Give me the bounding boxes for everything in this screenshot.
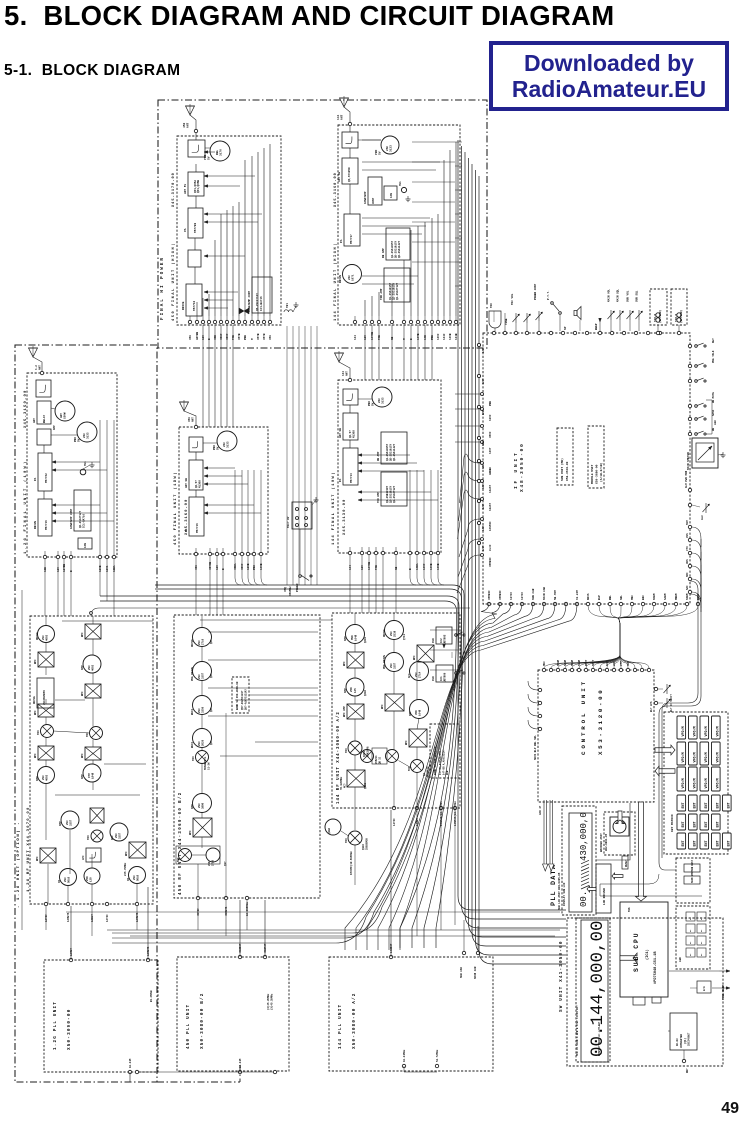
svg-text:CAR 4?: CAR 4? bbox=[539, 805, 542, 815]
svg-text:M: M bbox=[251, 338, 254, 340]
svg-text:M57737: M57737 bbox=[350, 234, 353, 244]
svg-text:X45-3150-00: X45-3150-00 bbox=[24, 390, 28, 428]
svg-text:BPF: BPF bbox=[343, 661, 346, 666]
svg-text:SSM: SSM bbox=[686, 520, 689, 525]
svg-text:14A6T: 14A6T bbox=[489, 485, 492, 493]
svg-text:MIX: MIX bbox=[37, 730, 40, 735]
svg-text:ENT: ENT bbox=[682, 840, 686, 846]
svg-text:VFO/M: VFO/M bbox=[704, 726, 709, 736]
svg-text:ENT: ENT bbox=[705, 821, 709, 827]
svg-text:12VB: 12VB bbox=[99, 565, 102, 572]
svg-text:AL: AL bbox=[689, 917, 692, 920]
svg-text:SSHM: SSHM bbox=[686, 593, 689, 600]
svg-text:VFO/M: VFO/M bbox=[716, 778, 721, 788]
svg-text:SUB VOL: SUB VOL bbox=[627, 290, 630, 302]
svg-text:ENT: ENT bbox=[728, 840, 732, 846]
svg-text:12V: 12V bbox=[216, 565, 219, 570]
svg-text:SUB CAR: SUB CAR bbox=[532, 588, 535, 600]
svg-text:DB AMP: DB AMP bbox=[382, 248, 385, 258]
svg-text:3133: 3133 bbox=[227, 441, 230, 448]
svg-text:(IC1): (IC1) bbox=[645, 949, 650, 960]
svg-text:C1-3W: C1-3W bbox=[208, 762, 211, 770]
svg-text:12TIF: 12TIF bbox=[521, 592, 524, 600]
svg-text:MAIN CAR: MAIN CAR bbox=[474, 966, 477, 979]
svg-text:DB AMP: DB AMP bbox=[377, 451, 380, 461]
svg-text:ENT: ENT bbox=[717, 802, 721, 808]
svg-text:X58-3610-00: X58-3610-00 bbox=[566, 461, 569, 481]
svg-text:TOR AMP: TOR AMP bbox=[377, 492, 380, 503]
svg-text:BPF: BPF bbox=[81, 753, 84, 758]
svg-text:MIC VOL: MIC VOL bbox=[511, 293, 514, 305]
svg-text:DISPLAY SUB LCD: DISPLAY SUB LCD bbox=[563, 882, 566, 906]
svg-text:AMP: AMP bbox=[36, 776, 39, 781]
svg-text:RBL: RBL bbox=[609, 595, 612, 600]
svg-text:SB: SB bbox=[395, 566, 398, 570]
svg-text:SP: SP bbox=[564, 326, 567, 330]
svg-text:POWER CONT: POWER CONT bbox=[534, 283, 537, 300]
svg-text:144 FINAL UNIT (10W): 144 FINAL UNIT (10W) bbox=[331, 471, 336, 545]
svg-text:M57788: M57788 bbox=[194, 223, 197, 233]
svg-text:12VF: 12VF bbox=[482, 525, 485, 531]
svg-text:AMP: AMP bbox=[344, 688, 347, 693]
svg-text:QX1,QX5B: QX1,QX5B bbox=[197, 180, 200, 193]
svg-text:3357: 3357 bbox=[119, 832, 122, 839]
svg-text:MIC: MIC bbox=[490, 303, 493, 308]
svg-text:POWER: POWER bbox=[296, 583, 299, 592]
svg-text:45RA: 45RA bbox=[234, 563, 237, 570]
svg-text:ALC: ALC bbox=[701, 515, 704, 520]
svg-text:14TIF: 14TIF bbox=[393, 818, 396, 826]
svg-text:X45-3170-00: X45-3170-00 bbox=[172, 172, 176, 207]
svg-text:Q202: Q202 bbox=[364, 690, 367, 696]
svg-text:Q6-2SA1142Y: Q6-2SA1142Y bbox=[398, 240, 401, 258]
svg-text:ANT SW: ANT SW bbox=[339, 428, 342, 438]
svg-text:B: B bbox=[222, 568, 225, 570]
svg-text:45TB: 45TB bbox=[257, 333, 260, 340]
svg-text:B: B bbox=[410, 338, 413, 340]
svg-text:TONE: TONE bbox=[505, 318, 508, 325]
svg-text:Q6-2SC2712Y: Q6-2SC2712Y bbox=[256, 293, 259, 311]
svg-text:12VF: 12VF bbox=[482, 409, 485, 415]
svg-text:DRIVE: DRIVE bbox=[33, 696, 36, 704]
svg-text:SAF: SAF bbox=[686, 585, 689, 590]
svg-text:PA: PA bbox=[340, 239, 343, 243]
svg-text:430,000,0: 430,000,0 bbox=[578, 812, 589, 861]
svg-text:ANT: ANT bbox=[187, 122, 190, 128]
svg-text:QX,SY1958: QX,SY1958 bbox=[348, 167, 351, 182]
svg-text:12V1: 12V1 bbox=[106, 565, 109, 572]
svg-text:4093: 4093 bbox=[46, 634, 49, 641]
svg-text:X50-3080-00 B/2: X50-3080-00 B/2 bbox=[200, 992, 205, 1049]
svg-text:14VB: 14VB bbox=[430, 563, 433, 570]
svg-text:14TXB: 14TXB bbox=[371, 332, 374, 340]
svg-text:VFO/M: VFO/M bbox=[681, 752, 686, 762]
svg-text:Q5?-A16?C121A?: Q5?-A16?C121A? bbox=[245, 689, 248, 710]
svg-text:XX: XX bbox=[127, 877, 130, 881]
svg-text:MAIN SMETER: MAIN SMETER bbox=[687, 452, 690, 470]
svg-text:5H.TDM: 5H.TDM bbox=[554, 590, 557, 600]
svg-text:125: 125 bbox=[354, 688, 357, 693]
svg-text:3357: 3357 bbox=[394, 662, 397, 669]
svg-text:45R: 45R bbox=[214, 335, 217, 340]
svg-text:MAIN SMST: MAIN SMST bbox=[691, 870, 694, 883]
svg-text:12VF: 12VF bbox=[482, 483, 485, 489]
svg-text:BPF: BPF bbox=[189, 830, 192, 835]
svg-text:3170: 3170 bbox=[220, 149, 223, 156]
svg-text:450 FINAL UNIT (1DW): 450 FINAL UNIT (1DW) bbox=[173, 471, 178, 545]
svg-text:QB 32: QB 32 bbox=[379, 756, 382, 764]
svg-text:14VT: 14VT bbox=[489, 447, 492, 454]
svg-text:MODULE UNIT: MODULE UNIT bbox=[591, 464, 594, 484]
svg-text:BPF: BPF bbox=[125, 851, 128, 856]
svg-text:TXB: TXB bbox=[232, 335, 235, 340]
svg-text:ANT: ANT bbox=[39, 365, 42, 370]
svg-text:X53-3120-00: X53-3120-00 bbox=[597, 688, 604, 755]
svg-text:SB: SB bbox=[391, 336, 394, 340]
svg-text:12VF: 12VF bbox=[482, 378, 485, 384]
svg-text:3133: 3133 bbox=[390, 145, 393, 152]
svg-text:Q6-2SA1142Y: Q6-2SA1142Y bbox=[393, 443, 396, 461]
svg-text:XX: XX bbox=[58, 879, 61, 883]
svg-text:CSS: CSS bbox=[686, 533, 689, 538]
svg-text:BPF: BPF bbox=[34, 659, 37, 664]
svg-text:BUFF: BUFF bbox=[191, 708, 194, 715]
svg-text:AVR: AVR bbox=[432, 638, 435, 643]
svg-text:10.24M: 10.24M bbox=[576, 590, 579, 600]
svg-text:M57716: M57716 bbox=[196, 523, 199, 533]
svg-text:45TB: 45TB bbox=[238, 333, 241, 340]
svg-text:00.: 00. bbox=[578, 891, 589, 907]
svg-text:45VF: 45VF bbox=[489, 431, 492, 438]
svg-text:3357: 3357 bbox=[202, 672, 205, 679]
svg-text:DRIVE: DRIVE bbox=[191, 639, 194, 647]
svg-text:Q2?: Q2? bbox=[210, 707, 213, 712]
svg-text:5010: 5010 bbox=[68, 876, 71, 883]
svg-text:3356: 3356 bbox=[202, 706, 205, 713]
svg-text:(A/1B-R/1B): (A/1B-R/1B) bbox=[599, 462, 603, 482]
svg-text:DC-DC: DC-DC bbox=[676, 1038, 679, 1046]
svg-text:450MHz: 450MHz bbox=[289, 586, 292, 596]
svg-text:DRIVE: DRIVE bbox=[182, 301, 185, 310]
svg-text:Q2?: Q2? bbox=[210, 639, 213, 644]
svg-text:245.70MHz: 245.70MHz bbox=[124, 862, 127, 876]
svg-text:RB: RB bbox=[712, 427, 715, 431]
svg-text:PRB: PRB bbox=[431, 335, 434, 340]
svg-text:BPF: BPF bbox=[34, 753, 37, 758]
svg-text:MRC: MRC bbox=[543, 661, 546, 666]
svg-text:VFO/M: VFO/M bbox=[693, 726, 698, 736]
svg-text:AL: AL bbox=[689, 941, 692, 944]
svg-text:12METS: 12METS bbox=[147, 946, 150, 956]
svg-text:SAHM: SAHM bbox=[664, 593, 667, 600]
svg-text:TONE BEEP: TONE BEEP bbox=[722, 984, 725, 1000]
svg-text:MIX: MIX bbox=[177, 857, 180, 862]
svg-text:MAIN VOL: MAIN VOL bbox=[608, 289, 611, 302]
svg-text:NOIS: NOIS bbox=[587, 593, 590, 600]
svg-text:12TIF: 12TIF bbox=[510, 592, 513, 600]
svg-text:CTX: CTX bbox=[686, 546, 689, 551]
svg-text:12VF: 12VF bbox=[489, 414, 492, 421]
svg-text:54.72MHz: 54.72MHz bbox=[436, 1049, 439, 1062]
svg-text:VFO/M: VFO/M bbox=[681, 778, 686, 788]
svg-text:45METS: 45METS bbox=[225, 906, 228, 916]
svg-text:M1308: M1308 bbox=[353, 430, 356, 438]
svg-text:ENT: ENT bbox=[705, 840, 709, 846]
svg-text:X59-3680-00: X59-3680-00 bbox=[596, 464, 599, 484]
svg-text:VFO/M: VFO/M bbox=[704, 778, 709, 788]
svg-text:MAHM: MAHM bbox=[653, 593, 656, 600]
svg-text:BLP: BLP bbox=[598, 595, 601, 600]
svg-text:ANT SW: ANT SW bbox=[185, 478, 188, 488]
svg-text:BPF: BPF bbox=[405, 740, 408, 745]
svg-text:SRL: SRL bbox=[620, 595, 623, 600]
svg-text:SUB UNIT (MR): SUB UNIT (MR) bbox=[560, 458, 564, 481]
svg-text:TOR AMP: TOR AMP bbox=[380, 288, 383, 300]
svg-text:12TIF: 12TIF bbox=[45, 914, 48, 922]
svg-text:AMP: AMP bbox=[111, 835, 114, 840]
svg-text:PA: PA bbox=[339, 478, 342, 482]
svg-text:45MHIF: 45MHIF bbox=[499, 590, 502, 600]
svg-text:X45-3130-00: X45-3130-00 bbox=[343, 499, 347, 535]
svg-text:W02-0801-05: W02-0801-05 bbox=[605, 833, 608, 851]
svg-text:ANT: ANT bbox=[346, 371, 349, 376]
svg-text:BEEP: BEEP bbox=[595, 323, 598, 330]
svg-text:450: 450 bbox=[195, 565, 198, 570]
svg-text:TH1: TH1 bbox=[399, 181, 402, 186]
svg-text:LCD DRIVER: LCD DRIVER bbox=[603, 888, 606, 905]
svg-text:Q2?: Q2? bbox=[210, 673, 213, 678]
svg-text:150W: 150W bbox=[64, 412, 67, 419]
svg-text:5V: 5V bbox=[208, 156, 211, 160]
svg-text:ENT: ENT bbox=[717, 840, 721, 846]
svg-text:PA: PA bbox=[184, 228, 187, 232]
svg-text:RELAY: RELAY bbox=[43, 415, 46, 423]
svg-text:144 PLL UNIT: 144 PLL UNIT bbox=[338, 1004, 343, 1049]
svg-text:12BA: 12BA bbox=[113, 565, 116, 572]
svg-text:2718: 2718 bbox=[212, 860, 215, 866]
svg-text:BPF AMP: BPF AMP bbox=[343, 706, 346, 717]
svg-text:AVR: AVR bbox=[432, 676, 435, 681]
svg-text:ANT: ANT bbox=[192, 417, 195, 422]
svg-text:Q3-2SC2712Y: Q3-2SC2712Y bbox=[393, 485, 396, 503]
svg-text:1.2G PLL UNIT: 1.2G PLL UNIT bbox=[53, 1001, 58, 1050]
svg-text:25C2458GT: 25C2458GT bbox=[688, 1032, 691, 1046]
svg-text:CRS: CRS bbox=[686, 559, 689, 564]
svg-text:Q3?: Q3? bbox=[224, 861, 227, 866]
svg-text:12V: 12V bbox=[202, 335, 205, 340]
svg-text:(X)45.35MHz: (X)45.35MHz bbox=[271, 993, 274, 1010]
svg-text:CONT: CONT bbox=[372, 197, 375, 204]
svg-text:BPF: BPF bbox=[81, 632, 84, 637]
svg-text:CONTROL UNIT: CONTROL UNIT bbox=[580, 679, 587, 755]
svg-text:14VF: 14VF bbox=[437, 333, 440, 340]
svg-text:14VB: 14VB bbox=[260, 563, 263, 570]
svg-text:SASS: SASS bbox=[712, 409, 715, 416]
svg-text:ALM PWR MDN: ALM PWR MDN bbox=[685, 470, 688, 488]
svg-text:ANT: ANT bbox=[341, 114, 344, 120]
svg-text:M16: M16 bbox=[628, 907, 631, 912]
svg-text:14VB: 14VB bbox=[437, 563, 440, 570]
svg-text:MAIN CAR: MAIN CAR bbox=[543, 587, 546, 600]
svg-text:1M45MF(10.595MHz: 1M45MF(10.595MHz bbox=[350, 851, 353, 875]
svg-text:BPF: BPF bbox=[81, 691, 84, 696]
svg-text:14RA: 14RA bbox=[416, 563, 419, 570]
svg-text:AL: AL bbox=[700, 917, 703, 920]
svg-text:AMP: AMP bbox=[81, 774, 84, 779]
svg-text:PRE DRIVE: PRE DRIVE bbox=[191, 667, 194, 681]
svg-text:SAHM: SAHM bbox=[564, 659, 567, 666]
svg-text:ENT: ENT bbox=[682, 821, 686, 827]
svg-text:14VB: 14VB bbox=[449, 333, 452, 340]
svg-text:VFO/M: VFO/M bbox=[693, 752, 698, 762]
svg-text:BPF: BPF bbox=[36, 856, 39, 861]
svg-text:144: 144 bbox=[349, 565, 352, 570]
svg-text:ENCODER ASSY: ENCODER ASSY bbox=[600, 833, 603, 852]
svg-text:2026: 2026 bbox=[202, 739, 205, 746]
svg-text:10.24MHz: 10.24MHz bbox=[403, 1049, 406, 1062]
svg-text:1848: 1848 bbox=[92, 772, 95, 779]
svg-text:UBT805: UBT805 bbox=[444, 634, 447, 644]
svg-text:12B1T: 12B1T bbox=[91, 914, 94, 922]
svg-text:45UNIT: 45UNIT bbox=[239, 943, 242, 953]
svg-text:CLIF: CLIF bbox=[489, 544, 492, 551]
svg-text:14UNIT: 14UNIT bbox=[390, 943, 393, 953]
svg-text:BAND SW X59-3690-00: BAND SW X59-3690-00 bbox=[236, 681, 239, 710]
svg-text:MIX: MIX bbox=[192, 756, 195, 761]
svg-text:IC1-BA716: IC1-BA716 bbox=[83, 514, 86, 528]
svg-text:450: 450 bbox=[269, 335, 272, 340]
svg-text:PRE DRIVE: PRE DRIVE bbox=[383, 655, 386, 669]
svg-text:LPF: LPF bbox=[82, 855, 85, 860]
svg-text:KEY: KEY bbox=[712, 338, 715, 343]
svg-text:TXB: TXB bbox=[375, 565, 378, 570]
svg-text:IC1-BA716: IC1-BA716 bbox=[260, 296, 263, 311]
svg-text:ANT SW: ANT SW bbox=[338, 172, 341, 182]
svg-text:FAN: FAN bbox=[84, 543, 87, 548]
svg-text:12VF: 12VF bbox=[482, 503, 485, 509]
svg-text:ENT: ENT bbox=[728, 802, 732, 808]
svg-text:144F: 144F bbox=[443, 333, 446, 340]
svg-text:B: B bbox=[409, 568, 412, 570]
svg-text:45MHIF: 45MHIF bbox=[488, 590, 491, 600]
svg-text:ENT: ENT bbox=[694, 821, 698, 827]
svg-text:4093: 4093 bbox=[92, 664, 95, 671]
svg-text:Q30A: Q30A bbox=[328, 828, 331, 834]
svg-text:14TB: 14TB bbox=[417, 333, 420, 340]
svg-text:SRIS BLP RBL SRL: SRIS BLP RBL SRL bbox=[534, 735, 537, 760]
svg-text:W/A: W/A bbox=[702, 986, 706, 991]
svg-text:AGC: AGC bbox=[714, 420, 717, 425]
svg-text:4093: 4093 bbox=[46, 774, 49, 781]
svg-text:AL: AL bbox=[700, 929, 703, 932]
svg-text:M57762: M57762 bbox=[45, 473, 48, 483]
svg-text:SUB CPU: SUB CPU bbox=[633, 931, 640, 972]
svg-text:12V: 12V bbox=[361, 565, 364, 570]
svg-text:12METS: 12METS bbox=[67, 912, 70, 922]
svg-text:DRIVE: DRIVE bbox=[34, 521, 37, 529]
svg-text:MC?: MC? bbox=[344, 783, 347, 788]
svg-text:KEY MATRIX: KEY MATRIX bbox=[671, 814, 674, 832]
svg-text:AMP: AMP bbox=[409, 711, 412, 716]
svg-text:45TXB: 45TXB bbox=[209, 562, 212, 570]
svg-text:FAN&TEMP: FAN&TEMP bbox=[364, 191, 367, 204]
svg-text:3133: 3133 bbox=[382, 397, 385, 404]
svg-text:3890: 3890 bbox=[202, 802, 205, 809]
svg-text:12V: 12V bbox=[364, 335, 367, 340]
svg-text:UBT806: UBT806 bbox=[444, 672, 447, 682]
svg-text:SW UNIT X41-3050-00: SW UNIT X41-3050-00 bbox=[559, 940, 564, 1012]
svg-text:BLT LPS: BLT LPS bbox=[650, 701, 653, 712]
svg-text:MIX: MIX bbox=[345, 748, 348, 753]
svg-text:FINAL HI POWER: FINAL HI POWER bbox=[160, 256, 165, 320]
svg-text:450 RF UNIT X44-3060-00 B/2: 450 RF UNIT X44-3060-00 B/2 bbox=[178, 791, 183, 895]
svg-text:3357: 3357 bbox=[70, 819, 73, 826]
svg-text:BPF: BPF bbox=[381, 704, 384, 709]
svg-text:FASMIF: FASMIF bbox=[489, 521, 492, 531]
svg-text:AL: AL bbox=[700, 953, 703, 956]
svg-text:PA: PA bbox=[34, 477, 37, 481]
svg-text:AMP: AMP bbox=[81, 665, 84, 670]
svg-text:Q2?: Q2? bbox=[210, 740, 213, 745]
svg-text:45TH: 45TH bbox=[263, 333, 266, 340]
svg-text:X48-3050-00: X48-3050-00 bbox=[519, 442, 525, 492]
svg-text:M57716: M57716 bbox=[45, 520, 48, 530]
svg-text:AMP: AMP bbox=[53, 425, 56, 430]
svg-text:ENT: ENT bbox=[682, 802, 686, 808]
svg-text:ENT: ENT bbox=[705, 802, 709, 808]
svg-text:B1.25MHz: B1.25MHz bbox=[150, 990, 153, 1002]
svg-text:1.2G RF UNIT X44-3070-00: 1.2G RF UNIT X44-3070-00 bbox=[27, 806, 31, 892]
svg-text:2538: 2538 bbox=[394, 630, 397, 637]
svg-text:5010: 5010 bbox=[137, 874, 140, 881]
svg-text:AFC: AFC bbox=[408, 673, 411, 678]
svg-text:14TXB: 14TXB bbox=[368, 562, 371, 570]
svg-text:10.695MHz: 10.695MHz bbox=[246, 902, 249, 916]
svg-text:3133: 3133 bbox=[87, 432, 90, 439]
svg-text:BUFF: BUFF bbox=[191, 741, 194, 748]
svg-text:AL: AL bbox=[689, 929, 692, 932]
svg-text:SUB SQL: SUB SQL bbox=[636, 290, 639, 302]
svg-text:ERC: ERC bbox=[642, 595, 645, 600]
svg-text:ENT: ENT bbox=[694, 802, 698, 808]
svg-text:1648: 1648 bbox=[419, 709, 422, 716]
svg-text:B: B bbox=[208, 338, 211, 340]
svg-text:2714: 2714 bbox=[419, 671, 422, 678]
svg-text:25858M55: 25858M55 bbox=[366, 838, 369, 850]
svg-text:TXB: TXB bbox=[378, 335, 381, 340]
svg-text:5V: 5V bbox=[372, 402, 375, 406]
svg-text:12VF: 12VF bbox=[482, 545, 485, 551]
svg-text:VFO/M: VFO/M bbox=[693, 778, 698, 788]
svg-text:B: B bbox=[70, 570, 73, 572]
svg-text:VFO/M: VFO/M bbox=[681, 726, 686, 736]
svg-text:PRB: PRB bbox=[489, 401, 492, 406]
svg-text:DRIVE: DRIVE bbox=[339, 275, 342, 283]
svg-text:Q3-2SC2712Y: Q3-2SC2712Y bbox=[396, 282, 399, 300]
svg-text:AL: AL bbox=[689, 953, 692, 956]
svg-text:12METS: 12METS bbox=[136, 912, 139, 922]
svg-text:VFO/M: VFO/M bbox=[704, 752, 709, 762]
svg-text:M57713: M57713 bbox=[350, 473, 353, 483]
svg-text:12VF: 12VF bbox=[482, 347, 485, 353]
svg-text:VFO/M: VFO/M bbox=[716, 726, 721, 736]
svg-text:MAF: MAF bbox=[686, 572, 689, 577]
svg-text:450F: 450F bbox=[220, 333, 223, 340]
svg-text:14VF: 14VF bbox=[423, 563, 426, 570]
svg-text:ANT 5V: ANT 5V bbox=[184, 184, 187, 194]
svg-text:VFO/M: VFO/M bbox=[716, 752, 721, 762]
svg-text:45VF: 45VF bbox=[241, 563, 244, 570]
